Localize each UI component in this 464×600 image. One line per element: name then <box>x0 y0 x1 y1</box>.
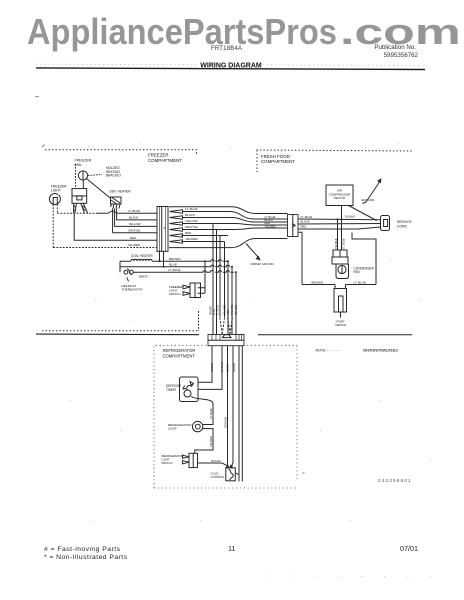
svg-text:GROUND: GROUND <box>361 198 375 202</box>
freezer compartment dashed box bottom <box>42 330 199 332</box>
svg-text:COMPARTMENT: COMPARTMENT <box>163 353 196 358</box>
svg-text:11: 11 <box>228 544 235 553</box>
svg-text:BLACK: BLACK <box>227 364 230 372</box>
stray mark above freezer box corner <box>42 145 45 148</box>
coil heater R1 <box>120 259 228 261</box>
svg-text:FAN: FAN <box>354 270 361 274</box>
bundle wire RED down <box>219 236 221 317</box>
svg-text:FRT18B4A: FRT18B4A <box>211 46 242 52</box>
harness wire YELLOW <box>183 224 288 226</box>
fresh food compartment dashed box left tick <box>256 150 258 172</box>
svg-text:YELLOW: YELLOW <box>185 219 198 223</box>
freezer light second lead dashed <box>56 204 58 213</box>
defrost timer TD1 <box>180 377 199 402</box>
freezer light switch S4 <box>190 283 201 298</box>
header rule <box>36 68 425 70</box>
svg-text:YEL/RED: YEL/RED <box>128 243 140 247</box>
compressor motor box M1 <box>326 185 353 206</box>
stray scan mark top left <box>35 96 39 98</box>
wire to condenser circuit <box>298 232 302 284</box>
svg-text:RED: RED <box>185 231 192 235</box>
svg-text:YELLOW: YELLOW <box>129 222 141 226</box>
svg-text:BR/OR: BR/OR <box>139 275 148 279</box>
wire BROWN below J1 <box>198 346 212 383</box>
cold control S1 <box>226 468 236 481</box>
svg-text:BRACKET: BRACKET <box>106 174 121 178</box>
freezer light DS1 <box>49 194 60 205</box>
svg-text:BLACK: BLACK <box>185 213 195 217</box>
wire YEL/RED to J2 (dashed, not on all models) <box>53 247 157 249</box>
svg-text:CONTROL: CONTROL <box>211 475 225 479</box>
svg-text:LT. BLUE: LT. BLUE <box>221 362 224 372</box>
svg-text:COMPARTMENT: COMPARTMENT <box>261 159 295 164</box>
svg-text:LT. BLUE: LT. BLUE <box>209 408 213 419</box>
compressor diagonal wire to cord <box>349 206 377 221</box>
switch out wire BLACK <box>198 463 228 466</box>
freezer fan dashed drop wire <box>75 164 77 188</box>
freezer fan motor B1 <box>78 171 87 180</box>
bundle wire ORN/YEL down <box>216 230 218 335</box>
connector pin V left <box>220 318 225 335</box>
harness wire BLACK <box>183 218 288 223</box>
refrigerator light DS2 <box>192 421 202 431</box>
svg-text:LT. BLUE: LT. BLUE <box>185 207 197 211</box>
wire RED to J2 <box>74 213 157 240</box>
mid separator line right <box>258 334 412 336</box>
svg-text:YEL/RED: YEL/RED <box>265 224 276 228</box>
svg-text:WIRING DIAGRAM: WIRING DIAGRAM <box>200 63 262 70</box>
svg-text:MOTOR: MOTOR <box>334 196 346 200</box>
compressor body with start device <box>334 289 347 313</box>
fan to bottom stubs <box>335 285 346 289</box>
compressor drop wire YEL/BLK <box>341 206 343 251</box>
refrigerator compartment dashed box <box>154 345 297 488</box>
svg-text:* = Non-Illustrated Parts: * = Non-Illustrated Parts <box>44 554 128 561</box>
connector pin ticks inside J1 <box>212 335 242 341</box>
svg-text:DENOTES NOT ON ALL MODELS: DENOTES NOT ON ALL MODELS <box>363 349 398 353</box>
svg-text:BROWN: BROWN <box>312 281 324 285</box>
cold control side tick <box>236 473 239 474</box>
svg-text:YEL/BLK: YEL/BLK <box>334 238 338 249</box>
svg-text:07/01: 07/01 <box>400 544 418 553</box>
wire BROWN2 below J1 <box>232 346 234 468</box>
svg-text:SWITCH: SWITCH <box>162 461 173 465</box>
ground arrow <box>366 182 380 203</box>
wire BLUE <box>120 265 232 267</box>
svg-text:Publication No.: Publication No. <box>374 44 416 51</box>
evaporator fan housing <box>72 189 87 204</box>
defrost thermostat S3 <box>124 269 133 275</box>
wire BLACK to J2 <box>117 214 157 220</box>
svg-text:# = Fast-moving Parts: # = Fast-moving Parts <box>44 546 121 553</box>
wire LT.BLUE lower <box>134 271 234 273</box>
cabinet ground arrow <box>246 244 259 258</box>
refrigerator compartment dashed box bottom <box>154 487 297 489</box>
svg-text:SWITCH: SWITCH <box>169 292 180 296</box>
svg-text:LT. BLUE: LT. BLUE <box>301 215 313 219</box>
svg-text:ORN/YEL: ORN/YEL <box>231 304 234 315</box>
svg-text:ORN/YEL: ORN/YEL <box>128 228 141 232</box>
svg-text:COIL HEATER: COIL HEATER <box>131 254 153 258</box>
svg-text:TIMER: TIMER <box>166 388 177 392</box>
housing hatched legs <box>73 203 87 213</box>
bundle wire BROWN down <box>227 261 229 334</box>
svg-text:240398801: 240398801 <box>378 478 411 483</box>
svg-text:LIGHT: LIGHT <box>168 427 177 431</box>
wire BLACK below J1 <box>227 346 229 468</box>
svg-text:RED: RED <box>130 236 136 240</box>
service cord plug P1 <box>381 216 390 231</box>
mid separator line left <box>36 333 199 336</box>
freezer compartment dashed box top <box>45 150 197 155</box>
fresh food compartment dashed box top <box>257 150 413 151</box>
svg-text:5995356762: 5995356762 <box>384 52 419 59</box>
harness wire LT.BLUE <box>183 212 288 220</box>
coil loop left vertical <box>119 261 121 272</box>
wire RED to plug <box>298 227 381 229</box>
thermostat leader <box>127 278 129 282</box>
svg-text:BLUE: BLUE <box>169 262 177 266</box>
svg-text:BROWN: BROWN <box>211 363 214 372</box>
svg-text:YEL/BLK: YEL/BLK <box>345 215 356 219</box>
main connector block J1 <box>208 335 244 346</box>
wire BROWN3 below J1 <box>241 346 243 482</box>
bundle wire LT.BLUE down <box>235 272 237 334</box>
dashed corner drop <box>198 311 200 331</box>
connector pin arrows at J2 <box>170 210 183 243</box>
defrost heater E1 <box>111 197 122 204</box>
condenser enclosure bottom <box>302 284 376 286</box>
svg-text:- - - - - - -: - - - - - - - <box>327 349 342 353</box>
svg-text:CABINET GROUND: CABINET GROUND <box>250 262 274 266</box>
svg-text:FREEZER: FREEZER <box>148 153 169 158</box>
harness wire RED <box>182 235 229 237</box>
svg-text:DEF. HEATER: DEF. HEATER <box>110 190 132 194</box>
svg-text:BLACK: BLACK <box>212 459 221 463</box>
refrigerator light switch S2 <box>189 453 198 467</box>
junction dots <box>159 218 343 466</box>
svg-text:BLACK: BLACK <box>129 216 139 220</box>
wire LT.BLUE to J2 <box>57 212 97 214</box>
svg-text:LT. BLUE: LT. BLUE <box>128 209 140 213</box>
svg-text:FRESH FOOD: FRESH FOOD <box>261 154 290 159</box>
switch feed vertical from BROWN wire <box>198 261 205 293</box>
svg-text:ORANGE: ORANGE <box>223 416 227 428</box>
scan speckle noise <box>60 143 431 521</box>
connector pin V right <box>228 318 233 335</box>
svg-text:LIGHT: LIGHT <box>51 188 61 192</box>
harness wire ORN/YEL <box>183 228 288 230</box>
svg-text:YEL/RED: YEL/RED <box>209 436 213 447</box>
svg-text:LT. BLUE: LT. BLUE <box>217 305 220 315</box>
pink scan dot <box>303 472 305 474</box>
harness outline bottom <box>169 239 288 248</box>
harness wire YEL/RED <box>182 241 225 243</box>
svg-text:ORN/YEL: ORN/YEL <box>185 225 199 229</box>
svg-text:LT. BLUE: LT. BLUE <box>354 281 366 285</box>
def heater legs <box>113 209 117 214</box>
wire LT.BLUE below J1 <box>198 346 222 390</box>
svg-text:CORD: CORD <box>397 224 408 228</box>
overload relay K1 <box>333 250 347 257</box>
refrigerator compartment dashed box right <box>296 345 298 481</box>
svg-text:DEVICE: DEVICE <box>336 323 347 327</box>
freezer fan wire to housing <box>82 180 84 189</box>
bundle wire YEL/RED down <box>224 242 226 317</box>
svg-text:BLACK: BLACK <box>301 220 310 224</box>
svg-text:LT. BLUE: LT. BLUE <box>168 268 180 272</box>
header dotted rule <box>36 64 425 65</box>
svg-text:RED: RED <box>227 310 230 315</box>
footer scan noise dotted line <box>268 576 452 577</box>
condenser fan motor B2 <box>336 264 349 279</box>
wire YELLOW to J2 <box>115 214 157 227</box>
timer out wire <box>191 397 213 425</box>
freezer connector J2 <box>157 207 168 252</box>
J2 bottom stubs to coil loop <box>160 251 164 266</box>
bundle wire YELLOW down <box>212 224 214 335</box>
svg-text:AppliancePartsPros: AppliancePartsPros <box>27 12 337 52</box>
condenser enclosure right <box>352 233 376 285</box>
freezer fan leader dashes <box>88 175 102 176</box>
svg-text:LT. BLUE: LT. BLUE <box>342 238 346 249</box>
wire LT.BLUE to plug <box>298 218 381 221</box>
wire ORANGE below J1 <box>238 346 240 482</box>
svg-text:YELLOW: YELLOW <box>235 304 238 315</box>
title WIRING DIAGRAM <box>199 59 263 68</box>
svg-text:YEL/RED: YEL/RED <box>185 237 199 241</box>
wire BLACK to plug <box>298 223 381 226</box>
wire ORN/YEL to J2 <box>113 214 157 233</box>
light out wire YEL/RED <box>195 429 213 454</box>
bundle wire BLUE down <box>231 267 233 335</box>
relay feed wire <box>337 219 339 250</box>
svg-text:COMPARTMENT: COMPARTMENT <box>148 158 182 163</box>
svg-text:THERMOSTAT: THERMOSTAT <box>122 288 143 292</box>
svg-text:BROWN: BROWN <box>233 363 236 372</box>
wire fan to def heater diagonal <box>86 178 111 199</box>
svg-text:RED: RED <box>301 225 307 229</box>
svg-text:NOTE:: NOTE: <box>316 349 327 353</box>
connector J3 <box>288 215 299 237</box>
svg-text:BROWN: BROWN <box>169 257 181 261</box>
harness outline top <box>169 207 288 214</box>
svg-text:FAN: FAN <box>75 163 82 167</box>
freezer light drop wire dashed <box>52 204 54 247</box>
